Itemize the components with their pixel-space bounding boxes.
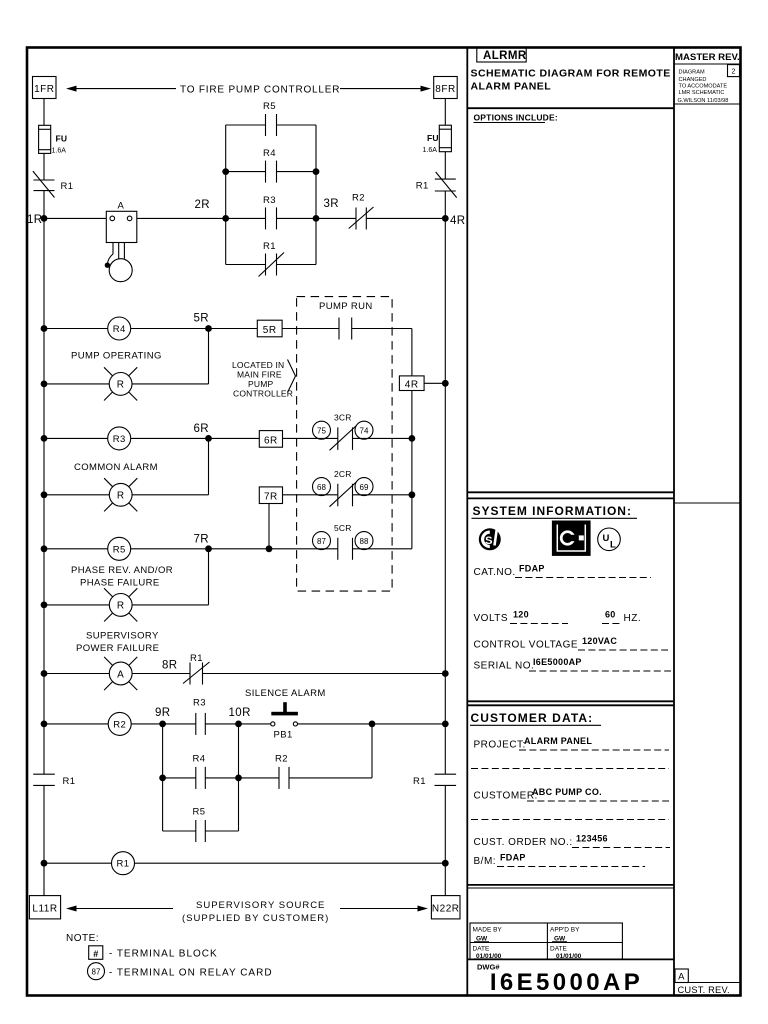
svg-text:L11R: L11R bbox=[32, 904, 57, 915]
label NOTE bbox=[66, 933, 99, 944]
node branch R4 right bbox=[235, 775, 242, 782]
left bus of parallel contact block bbox=[225, 125, 227, 265]
contact R2 branch bbox=[239, 754, 373, 789]
svg-text:CONTROLLER: CONTROLLER bbox=[233, 389, 293, 399]
svg-text:COMMON ALARM: COMMON ALARM bbox=[74, 462, 158, 473]
svg-text:3CR: 3CR bbox=[334, 413, 352, 423]
customer data box bottom line bbox=[467, 884, 674, 886]
svg-text:1.6A: 1.6A bbox=[423, 147, 438, 154]
wire fuse to contact R1 right bbox=[444, 152, 446, 179]
label B/M FDAP bbox=[474, 853, 646, 868]
svg-text:R: R bbox=[117, 491, 125, 502]
cust rev bottom line bbox=[674, 982, 741, 984]
svg-text:FU: FU bbox=[56, 134, 68, 144]
terminal block L11R bbox=[29, 896, 60, 919]
wire contact R2 to node 4R bbox=[366, 217, 445, 219]
svg-text:HZ.: HZ. bbox=[624, 613, 642, 624]
wire lamp rung up to node 7R bbox=[208, 549, 210, 605]
label LOCATED IN MAIN FIRE PUMP CONTROLLER bbox=[232, 360, 296, 399]
blank dashed line 1 bbox=[471, 768, 669, 770]
contact R1 NC (row bottom) bbox=[226, 241, 316, 277]
wire lamp A to contact R1 bbox=[132, 673, 190, 675]
node branch join rung R2 bbox=[369, 721, 376, 728]
svg-text:PB1: PB1 bbox=[274, 730, 293, 741]
svg-text:CUSTOMER:: CUSTOMER: bbox=[474, 791, 538, 802]
svg-text:R5: R5 bbox=[193, 807, 206, 818]
svg-text:R2: R2 bbox=[113, 719, 126, 730]
svg-text:75: 75 bbox=[317, 427, 326, 436]
svg-text:G.WILSON 11/03/98: G.WILSON 11/03/98 bbox=[678, 98, 729, 104]
svg-text:VOLTS: VOLTS bbox=[474, 613, 509, 624]
right bus of parallel contact block bbox=[315, 125, 317, 265]
svg-text:L: L bbox=[610, 540, 616, 551]
svg-text:LOCATED IN: LOCATED IN bbox=[232, 360, 284, 370]
svg-text:- TERMINAL ON RELAY CARD: - TERMINAL ON RELAY CARD bbox=[109, 968, 273, 979]
svg-text:60: 60 bbox=[605, 610, 616, 620]
node right rail rung R2 bbox=[442, 721, 449, 728]
revision number box 2 bbox=[728, 65, 740, 77]
wire 9R down branch bbox=[162, 724, 164, 831]
rev column mid line bbox=[674, 502, 741, 504]
node 5R bbox=[194, 313, 212, 332]
NC contact R1 on left rail bbox=[33, 171, 74, 197]
svg-text:POWER FAILURE: POWER FAILURE bbox=[76, 643, 159, 654]
svg-text:5CR: 5CR bbox=[334, 523, 352, 533]
wire device A to node 2R bbox=[137, 217, 226, 219]
system info box bottom line bbox=[467, 700, 674, 702]
terminal block 1FR bbox=[33, 77, 57, 99]
svg-text:74: 74 bbox=[360, 427, 369, 436]
svg-text:TO ACCOMODATE: TO ACCOMODATE bbox=[679, 84, 728, 90]
svg-text:SUPERVISORY: SUPERVISORY bbox=[86, 631, 159, 642]
svg-text:CUSTOMER DATA:: CUSTOMER DATA: bbox=[471, 711, 594, 725]
wire left rail bottom (capacitor to L11R) bbox=[43, 785, 45, 895]
svg-text:5R: 5R bbox=[263, 325, 277, 336]
wire main rung 1R to device A bbox=[44, 217, 106, 219]
svg-text:R3: R3 bbox=[193, 698, 206, 709]
svg-text:PHASE REV. AND/OR: PHASE REV. AND/OR bbox=[71, 565, 173, 576]
svg-text:1R: 1R bbox=[27, 214, 43, 226]
title section divider bbox=[467, 107, 674, 109]
node 7R stub junction bbox=[266, 545, 273, 552]
NO contact 5CR bbox=[338, 538, 412, 560]
svg-text:CHANGED: CHANGED bbox=[679, 77, 707, 83]
svg-text:NOTE:: NOTE: bbox=[66, 933, 99, 944]
svg-text:R: R bbox=[117, 601, 125, 612]
svg-text:120VAC: 120VAC bbox=[582, 636, 617, 646]
header MASTER REV. bbox=[674, 52, 741, 64]
contact pump run NO bbox=[339, 318, 412, 340]
arrow to 8FR bbox=[340, 86, 431, 92]
svg-text:CAT.NO.: CAT.NO. bbox=[474, 567, 516, 578]
svg-text:DIAGRAM: DIAGRAM bbox=[679, 70, 705, 76]
svg-text:7R: 7R bbox=[264, 492, 278, 503]
node 2R bbox=[195, 199, 230, 222]
svg-text:I6E5000AP: I6E5000AP bbox=[533, 657, 582, 667]
svg-text:2R: 2R bbox=[195, 199, 211, 211]
svg-text:PUMP OPERATING: PUMP OPERATING bbox=[71, 351, 162, 362]
node left rail lamp R (pump operating) bbox=[41, 381, 48, 388]
contact R3 row (main rung) bbox=[226, 195, 316, 229]
svg-text:B/M:: B/M: bbox=[474, 856, 497, 867]
terminal box 4R bbox=[399, 376, 424, 391]
svg-text:R3: R3 bbox=[113, 434, 126, 445]
svg-text:CUST. ORDER NO.:: CUST. ORDER NO.: bbox=[474, 837, 573, 848]
svg-text:PUMP RUN: PUMP RUN bbox=[319, 301, 373, 312]
revision block bottom line bbox=[674, 103, 741, 105]
svg-text:4R: 4R bbox=[405, 379, 419, 390]
svg-text:MASTER REV.: MASTER REV. bbox=[675, 52, 740, 63]
label CUST. ORDER NO. 123456 bbox=[474, 834, 671, 849]
svg-text:DATE: DATE bbox=[550, 946, 568, 953]
svg-text:DATE: DATE bbox=[473, 946, 491, 953]
wire right rail top (8FR to fuse) bbox=[444, 99, 446, 126]
certification mark square logo bbox=[552, 521, 591, 556]
svg-text:ALARM PANEL: ALARM PANEL bbox=[471, 81, 552, 93]
svg-text:MAIN FIRE: MAIN FIRE bbox=[237, 370, 282, 380]
node left rail lamp A bbox=[41, 670, 48, 677]
drawing code box ALRMR bbox=[477, 48, 527, 63]
node branch R4 left bbox=[159, 775, 166, 782]
svg-text:7R: 7R bbox=[194, 534, 210, 546]
label SUPERVISORY SOURCE bbox=[182, 900, 329, 924]
blank dashed line 2 bbox=[471, 819, 669, 821]
svg-text:ALARM PANEL: ALARM PANEL bbox=[524, 736, 592, 746]
wire 10R down branch bbox=[238, 724, 240, 831]
svg-text:R5: R5 bbox=[113, 544, 126, 555]
svg-text:1FR: 1FR bbox=[34, 84, 54, 95]
wire branch up to rung R2 bbox=[371, 724, 373, 778]
svg-text:SUPERVISORY SOURCE: SUPERVISORY SOURCE bbox=[196, 900, 325, 911]
svg-text:2CR: 2CR bbox=[334, 469, 352, 479]
alarm device A bbox=[105, 201, 137, 282]
node 6R bbox=[194, 423, 212, 442]
node left rail lamp R (phase failure) bbox=[41, 602, 48, 609]
terminal box 5R bbox=[257, 320, 282, 337]
svg-text:69: 69 bbox=[360, 483, 369, 492]
svg-text:R: R bbox=[117, 380, 125, 391]
node 7R bbox=[194, 534, 212, 553]
svg-text:APP'D BY: APP'D BY bbox=[550, 927, 580, 934]
wire left rail top (1FR to fuse FU) bbox=[43, 99, 45, 126]
arrow to N22R bbox=[340, 906, 428, 912]
svg-text:SCHEMATIC DIAGRAM FOR REMOT: SCHEMATIC DIAGRAM FOR REMOTE bbox=[471, 68, 671, 80]
rev column divider bbox=[673, 48, 675, 996]
svg-text:CUST. REV.: CUST. REV. bbox=[678, 985, 730, 995]
svg-text:PHASE FAILURE: PHASE FAILURE bbox=[80, 578, 160, 589]
svg-text:TO FIRE PUMP CONTROLLER: TO FIRE PUMP CONTROLLER bbox=[180, 85, 340, 96]
cust rev box A bbox=[675, 969, 688, 983]
svg-text:88: 88 bbox=[360, 537, 369, 546]
svg-text:1.6A: 1.6A bbox=[52, 148, 67, 155]
fuse FU right bbox=[423, 125, 452, 154]
label PROJECT ALARM PANEL bbox=[474, 736, 670, 751]
NC contact R1 on right rail bbox=[416, 172, 457, 198]
svg-text:6R: 6R bbox=[194, 423, 210, 435]
relay coil R3 bbox=[44, 427, 209, 450]
svg-text:ABC PUMP CO.: ABC PUMP CO. bbox=[532, 787, 602, 797]
svg-text:R1: R1 bbox=[61, 181, 74, 192]
svg-text:SERIAL NO.: SERIAL NO. bbox=[474, 661, 535, 672]
node right rail rung R1 bbox=[442, 860, 449, 867]
svg-text:R1: R1 bbox=[63, 776, 76, 787]
wire 4R box to right rail bbox=[424, 382, 445, 384]
wire 6R box to contact 3CR bbox=[283, 437, 338, 439]
capacitor contact R1 on right rail bbox=[413, 774, 456, 787]
CSA logo bbox=[479, 528, 501, 550]
svg-text:3R: 3R bbox=[324, 198, 340, 210]
pilot lamp R common alarm bbox=[44, 478, 209, 511]
wire right rail (contact to capacitor) bbox=[444, 191, 446, 774]
NC contact R2 main rung bbox=[349, 193, 374, 230]
svg-text:68: 68 bbox=[317, 483, 326, 492]
node left rail rung R4 bbox=[41, 325, 48, 332]
node left rail rung R1 bbox=[41, 860, 48, 867]
svg-text:I6E5000AP: I6E5000AP bbox=[490, 969, 643, 996]
node right rail 4R box bbox=[442, 380, 449, 387]
title text SCHEMATIC DIAGRAM FOR REMOTE ALARM PANEL bbox=[471, 68, 671, 93]
legend terminal block symbol H bbox=[89, 946, 218, 960]
svg-text:87: 87 bbox=[92, 968, 101, 977]
svg-text:R3: R3 bbox=[263, 195, 276, 206]
svg-text:N22R: N22R bbox=[432, 904, 460, 915]
label CUSTOMER ABC PUMP CO. bbox=[474, 787, 670, 802]
node right rail rung 8R bbox=[442, 670, 449, 677]
system info box top line bbox=[467, 497, 674, 499]
contact R5 (row top) bbox=[226, 101, 316, 136]
terminal block 8FR bbox=[434, 77, 458, 99]
node 10R bbox=[229, 707, 251, 727]
terminal circle 87 bbox=[313, 532, 331, 550]
wire right rail bottom (capacitor to N22R) bbox=[444, 785, 446, 895]
svg-text:8FR: 8FR bbox=[435, 84, 455, 95]
svg-text:CONTROL VOLTAGE: CONTROL VOLTAGE bbox=[474, 640, 579, 651]
terminal box 6R bbox=[259, 431, 282, 448]
svg-text:A: A bbox=[678, 972, 685, 983]
svg-text:S: S bbox=[485, 535, 492, 547]
node 1R bbox=[27, 214, 47, 226]
arrow to L11R bbox=[66, 906, 173, 912]
contact R3 rung 9R bbox=[163, 698, 239, 735]
contact R4 branch bbox=[163, 754, 239, 789]
label CAT.NO. with value FDAP bbox=[474, 564, 652, 579]
node left rail rung R5 bbox=[41, 545, 48, 552]
wire 7R node to contact 5CR bbox=[209, 548, 338, 550]
svg-text:FDAP: FDAP bbox=[519, 564, 545, 574]
terminal circle 74 bbox=[355, 421, 373, 439]
fuse FU left bbox=[39, 125, 68, 154]
svg-text:FU: FU bbox=[427, 133, 439, 143]
svg-text:A: A bbox=[117, 669, 124, 680]
inner rail upper segment bbox=[411, 329, 413, 376]
svg-text:SYSTEM INFORMATION:: SYSTEM INFORMATION: bbox=[473, 504, 632, 518]
UL logo bbox=[598, 528, 621, 551]
label SERIAL NO. I6E5000AP bbox=[474, 657, 672, 672]
svg-text:R1: R1 bbox=[190, 653, 203, 664]
relay coil R4 bbox=[44, 317, 209, 340]
terminal box 7R bbox=[259, 487, 282, 504]
node 3R bbox=[313, 198, 339, 222]
svg-text:A: A bbox=[118, 201, 125, 212]
relay coil R1 bbox=[44, 852, 445, 875]
title column divider bbox=[466, 48, 468, 996]
lower box top line bbox=[467, 887, 674, 889]
node left rail rung R3 bbox=[41, 435, 48, 442]
wire 5R box to pump run contact bbox=[282, 328, 339, 330]
pilot lamp A supervisory bbox=[44, 657, 137, 690]
push button PB1 bbox=[239, 702, 446, 740]
NC contact 2CR bbox=[330, 482, 412, 507]
node inner rail 3CR bbox=[409, 435, 416, 442]
capacitor contact R1 on left rail bbox=[33, 774, 75, 787]
svg-text:R1: R1 bbox=[416, 181, 429, 192]
svg-text:PUMP: PUMP bbox=[248, 379, 273, 389]
svg-text:(SUPPLIED BY CUSTOMER): (SUPPLIED BY CUSTOMER) bbox=[182, 913, 329, 924]
wire contact R1 to right rail bbox=[203, 673, 446, 675]
node 4R bbox=[442, 215, 466, 227]
svg-text:R2: R2 bbox=[275, 754, 288, 765]
label VOLTS 120 60 HZ bbox=[474, 610, 642, 625]
node left rail rung R2 bbox=[41, 721, 48, 728]
label CONTROL VOLTAGE 120VAC bbox=[474, 636, 669, 651]
svg-text:2: 2 bbox=[732, 69, 736, 76]
terminal circle 75 bbox=[313, 421, 331, 439]
contact R5 branch bbox=[163, 807, 239, 843]
NC contact 3CR bbox=[330, 426, 412, 451]
wire 6R node to 6R box bbox=[209, 437, 260, 439]
node 9R bbox=[155, 707, 171, 727]
dashed enclosure PUMP RUN (located in controller) bbox=[297, 297, 393, 591]
svg-text:9R: 9R bbox=[155, 707, 171, 719]
node left rail lamp R (common alarm) bbox=[41, 491, 48, 498]
svg-text:8R: 8R bbox=[162, 660, 178, 672]
relay coil R5 bbox=[44, 537, 209, 560]
svg-text:R5: R5 bbox=[263, 101, 276, 112]
wire lamp rung up to node 5R bbox=[208, 329, 210, 384]
svg-text:5R: 5R bbox=[194, 313, 210, 325]
wire lamp rung up to node 6R bbox=[208, 438, 210, 494]
wire left rail (contact to capacitor) bbox=[43, 191, 45, 775]
NC contact R1 rung 8R bbox=[183, 653, 210, 685]
customer data box top line bbox=[467, 704, 674, 706]
svg-text:ALRMR: ALRMR bbox=[483, 50, 527, 62]
made by table bbox=[470, 923, 622, 960]
svg-text:OPTIONS INCLUDE:: OPTIONS INCLUDE: bbox=[474, 113, 558, 123]
svg-text:6R: 6R bbox=[264, 435, 278, 446]
svg-text:FDAP: FDAP bbox=[500, 853, 526, 863]
terminal circle 88 bbox=[355, 532, 373, 550]
svg-text:#: # bbox=[93, 949, 98, 959]
contact R4 row bbox=[222, 148, 319, 183]
label SUPERVISORY POWER FAILURE bbox=[76, 631, 159, 655]
svg-text:87: 87 bbox=[317, 537, 326, 546]
svg-text:R1: R1 bbox=[263, 241, 276, 252]
pilot lamp R pump operating bbox=[44, 367, 209, 400]
header SYSTEM INFORMATION bbox=[472, 504, 638, 518]
svg-text:R4: R4 bbox=[263, 148, 276, 159]
options box bottom line bbox=[467, 491, 674, 493]
inner rail lower segment bbox=[411, 391, 413, 549]
terminal circle 69 bbox=[355, 478, 373, 496]
wire 5R node to 5R box bbox=[209, 328, 258, 330]
DWG box top line bbox=[467, 958, 674, 960]
svg-text:R2: R2 bbox=[352, 193, 365, 204]
svg-text:120: 120 bbox=[513, 610, 529, 620]
svg-text:10R: 10R bbox=[229, 707, 251, 719]
arrow to 1FR bbox=[66, 86, 176, 92]
wire 7R box stub down bbox=[268, 504, 270, 549]
svg-text:4R: 4R bbox=[450, 215, 466, 227]
label OPTIONS INCLUDE bbox=[474, 113, 558, 123]
svg-text:R1: R1 bbox=[413, 776, 426, 787]
node inner rail 2CR bbox=[409, 491, 416, 498]
terminal circle 68 bbox=[313, 478, 331, 496]
pilot lamp R phase failure bbox=[44, 588, 209, 621]
svg-text:MADE BY: MADE BY bbox=[473, 927, 503, 934]
svg-text:R4: R4 bbox=[193, 754, 206, 765]
svg-text:U: U bbox=[603, 533, 610, 544]
svg-text:- TERMINAL BLOCK: - TERMINAL BLOCK bbox=[109, 949, 218, 960]
relay coil R2 bbox=[44, 712, 163, 735]
header CUSTOMER DATA bbox=[470, 711, 601, 725]
svg-text:R4: R4 bbox=[113, 324, 126, 335]
wire 3R to contact R2 bbox=[316, 217, 356, 219]
svg-text:LMR SCHEMATIC: LMR SCHEMATIC bbox=[679, 90, 725, 96]
legend terminal circle 87 bbox=[88, 963, 273, 980]
svg-text:PROJECT:: PROJECT: bbox=[474, 740, 526, 751]
label PHASE REV. AND/OR PHASE FAILURE bbox=[71, 565, 173, 589]
svg-text:R1: R1 bbox=[117, 859, 130, 870]
svg-text:123456: 123456 bbox=[576, 834, 608, 844]
terminal block N22R bbox=[431, 896, 460, 919]
wire fuse to contact R1 left bbox=[43, 153, 45, 180]
svg-text:SILENCE ALARM: SILENCE ALARM bbox=[245, 688, 326, 699]
revision entry text bbox=[678, 70, 729, 105]
wire 7R box to contact 2CR bbox=[283, 494, 338, 496]
